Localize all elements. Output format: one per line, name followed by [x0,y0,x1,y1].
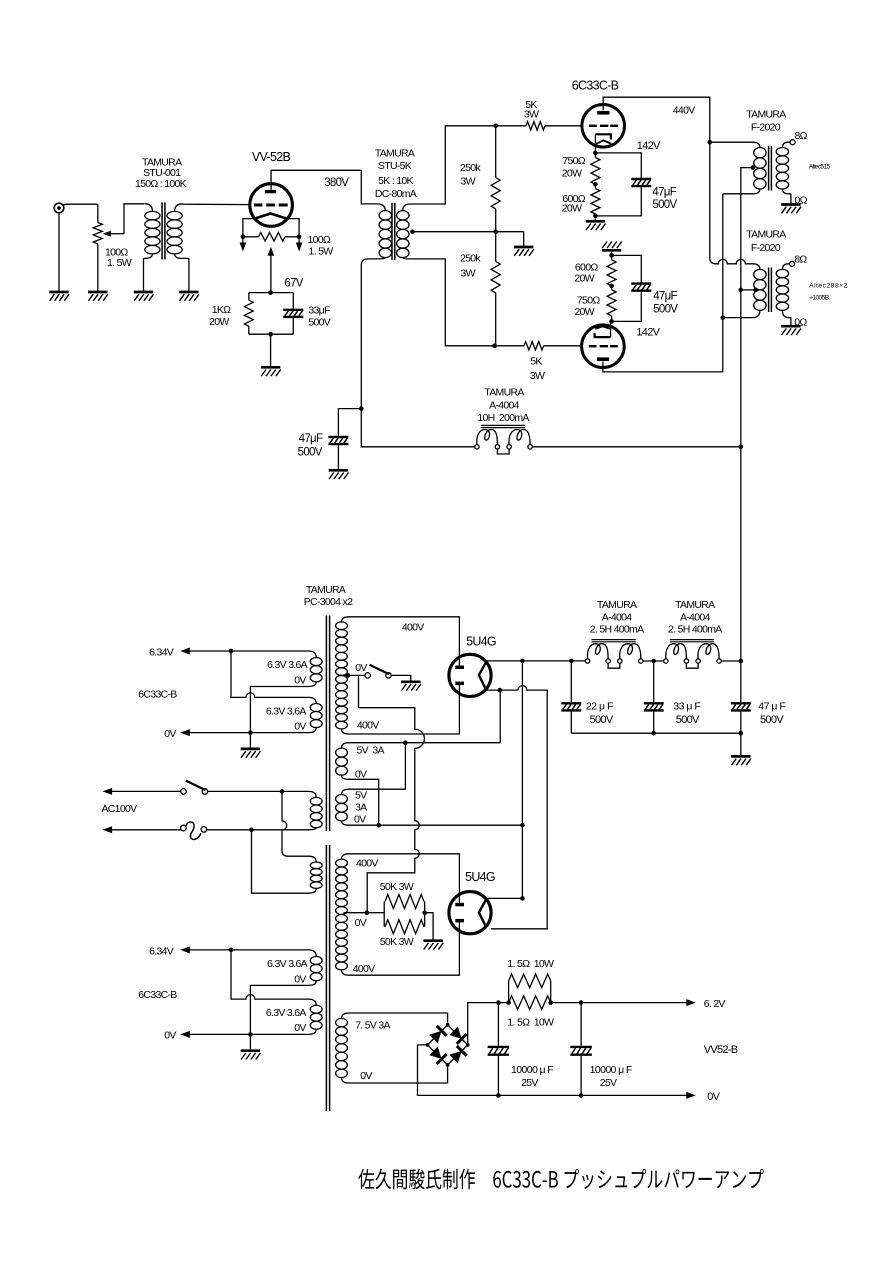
svg-text:750Ω: 750Ω [562,155,585,167]
wire AC hot to switch [112,790,181,792]
label 5K 3W upper [524,99,539,121]
capacitor 47uF 500V filter left [328,409,361,471]
wire bias bottom rail [249,333,293,335]
node T3 center tap [751,165,756,170]
svg-text:7. 5V 3A: 7. 5V 3A [355,1019,390,1031]
wire 0V bus to B+ sense [349,824,522,826]
svg-text:1. 5Ω 10W: 1. 5Ω 10W [507,1016,554,1028]
svg-text:500V: 500V [760,714,784,726]
svg-text:STU-001: STU-001 [143,167,181,179]
wire 5V1 bottom to 0V bus [349,779,379,825]
winding 6.3V 3.6A lower block 2 [309,999,323,1034]
svg-text:6.34V: 6.34V [149,946,174,958]
resistor 1Kohm 20W [244,293,253,335]
label 47uF 500V lower [653,291,678,316]
svg-text:0V: 0V [294,1022,306,1034]
wire fuse to primaries [207,829,309,831]
resistor 750ohm 20W lower [607,286,616,322]
wire STU-5K secondary top to grid1 [414,126,496,204]
bridge rectifier D1-D4 [426,1023,470,1067]
svg-text:0V: 0V [164,1030,176,1042]
svg-text:TAMURA: TAMURA [675,599,715,611]
ground HT switch [401,682,421,691]
node cathode network top lower [609,253,614,258]
node V3 filament bottom [498,688,503,693]
node B+ rail [739,659,744,664]
label 600ohm 20W lower [574,262,598,285]
node 6.34V riser block 1 [229,649,234,654]
capacitor 47uF 500V psu [731,661,751,733]
label 100ohm 1.5W pot [105,246,132,268]
arrow AC neutral [103,826,113,833]
svg-text:VV-52B: VV-52B [252,150,291,164]
wire STU-5K center tap [413,231,524,233]
node T4 center tap coil [754,288,759,293]
wire B+ down to PSU [740,447,742,661]
node grid1 junction [493,124,498,129]
svg-text:67V: 67V [284,278,303,290]
node 1.5ohm left [506,1000,511,1005]
node HV2 tap riser [365,910,370,915]
wire 7.5V bottom to bridge [349,1067,448,1083]
ground center tap [514,247,534,256]
node bias bottom [268,332,273,337]
svg-text:6.3V 3.6A: 6.3V 3.6A [266,1007,307,1019]
svg-text:100Ω: 100Ω [308,234,331,246]
svg-text:3W: 3W [524,109,539,121]
svg-text:0V: 0V [355,917,367,929]
svg-text:0V: 0V [355,768,367,780]
svg-text:1. 5Ω 10W: 1. 5Ω 10W [507,958,554,970]
transformer T2 STU-5K [361,170,413,265]
node between 600 and 750 lower [609,284,614,289]
svg-text:750Ω: 750Ω [577,295,600,307]
wire HV taps interconnect (down to HV2) [359,675,425,912]
wire 0V rail block 2 [189,1033,308,1035]
wire neutral drop to primary B [252,830,309,893]
wire STU-001 primary bottom to ground [143,258,145,292]
svg-text:380V: 380V [324,177,349,189]
svg-text:Altec288×2: Altec288×2 [809,283,848,290]
svg-text:25V: 25V [521,1077,538,1089]
node center tap coil [410,229,415,234]
node T4 center tap riser [739,288,744,293]
svg-text:500V: 500V [308,317,330,329]
node 440V rail at T3 primary top [708,140,713,145]
label 1Kohm 20W [209,304,231,328]
svg-text:TAMURA: TAMURA [746,229,786,241]
svg-text:22 μ F: 22 μ F [586,701,613,713]
resistor 600ohm 20W lower [607,255,616,286]
node rail/22uF [569,659,574,664]
wire 0V to ground block 1 [249,733,251,749]
label 5K 3W lower [530,356,545,382]
svg-text:STU-5K: STU-5K [378,160,412,172]
node 5V1 top junction [403,740,408,745]
node T4 primary bottom [721,315,726,320]
capacitor 33uF 500V [283,293,303,335]
label TAMURA F-2020 upper [746,108,786,133]
svg-text:TAMURA: TAMURA [597,599,637,611]
label TAMURA A-4004 2.5H no.1 [590,599,644,636]
svg-text:6C33C-B: 6C33C-B [138,989,177,1001]
terminal 8ohm lower [790,261,795,266]
triode V1 6C33C-B upper [582,105,625,148]
arrow 0V out bottom [686,1092,696,1099]
wire T4 center tap [741,289,756,291]
svg-text:0V: 0V [294,720,306,732]
input jack J1 [54,203,98,213]
wire upper 0V lead block 2 [250,985,308,1034]
transformer T4 F-2020 lower [723,264,791,318]
wire V2 plate to transformers [603,318,723,372]
node cap1 bottom [496,1093,501,1098]
triode V2 6C33C-B lower [582,325,625,368]
svg-text:0V: 0V [707,1091,720,1103]
rectifier V4 5U4G [449,892,491,934]
svg-text:TAMURA: TAMURA [484,387,524,399]
svg-text:142V: 142V [636,327,660,339]
wire psu ground bus [571,732,741,734]
svg-text:6C33C-B: 6C33C-B [572,79,619,93]
ground upper cathode [586,221,606,230]
svg-text:5U4G: 5U4G [465,870,495,884]
node filament left [241,235,246,240]
choke L2 A-4004 2.5H [585,640,643,669]
arrow 6.34V out block 2 [180,946,190,953]
svg-text:250k: 250k [460,162,481,174]
svg-text:150Ω : 100K: 150Ω : 100K [135,178,187,190]
svg-text:1. 5W: 1. 5W [107,257,132,269]
label 100ohm 1.5W hum [308,234,334,257]
arrow 0V out block 1 [180,729,190,736]
label 33uF 500V psu [673,701,700,726]
winding 5V 3A no.2 [336,789,349,825]
label TAMURA PC-3004 x2 [304,584,353,608]
svg-text:500V: 500V [676,714,700,726]
arrow 6.2V out [686,999,696,1006]
arrow AC hot [103,788,113,795]
wire HV1 bottom to V3 plate lower [349,685,459,734]
winding 7.5V 3A [336,1013,349,1083]
label 750ohm 20W upper [562,155,586,180]
rectifier V3 5U4G [449,654,491,696]
label 10000uF 25V no.2 [590,1064,632,1089]
wire B+ riser down to choke [740,290,742,447]
wire V2 cathode lead [610,321,612,337]
svg-text:400V: 400V [357,720,379,732]
wire upper 0V lead block 1 [250,687,308,733]
wire V4 filament top [487,897,523,899]
wire HV1 top to V3 plate [349,617,459,666]
svg-text:500V: 500V [653,304,678,316]
wire 5V1 top to V3 filament (hop) [349,690,500,743]
svg-text:400V: 400V [353,963,375,975]
svg-text:0V: 0V [354,813,366,825]
svg-text:6.3V 3.6A: 6.3V 3.6A [267,659,308,671]
label TAMURA STU-5K [375,147,417,200]
ground T4 secondary [781,326,801,335]
resistor 5K 3W upper [496,122,582,130]
node V2 cathode 142V [609,319,614,324]
winding 5V 3A no.1 [336,743,349,780]
svg-text:20W: 20W [574,273,594,285]
svg-text:0V: 0V [355,662,367,674]
svg-text:3W: 3W [461,267,476,279]
svg-text:142V: 142V [637,140,661,152]
wire hot drop to primary B (hop) [282,791,309,856]
wire 6.2V rail [551,1002,687,1004]
svg-text:6.3V 3.6A: 6.3V 3.6A [266,705,307,717]
node 47uF tap [359,406,364,411]
wire 7.5V top to bridge [349,1013,448,1023]
choke L3 A-4004 2.5H [664,640,722,669]
wire riser to lower winding (hop) block 1 [231,651,309,697]
svg-text:AC100V: AC100V [102,803,138,815]
node rail/0V riser [520,659,525,664]
svg-text:47μF: 47μF [653,291,677,303]
arrow 6.34V out block 1 [180,648,190,655]
svg-text:1. 5W: 1. 5W [309,245,334,257]
hum resistor 100ohm 1.5W [259,233,286,242]
resistor 250k 3W upper [491,126,500,232]
winding HV1 400-0-400 [336,617,349,734]
node cap2 bottom [579,1093,584,1098]
arrow filament right to 6.2V [296,243,303,252]
svg-text:PC-3004 x2: PC-3004 x2 [304,596,353,608]
svg-text:3W: 3W [461,175,476,187]
svg-text:47μF: 47μF [652,187,676,199]
label TAMURA F-2020 lower [746,229,786,254]
node cathode network bottom upper [593,214,598,219]
transformer T6 PC-3004 core lower [325,845,327,1111]
triode VV-52B [250,184,293,227]
svg-text:440V: 440V [673,105,695,117]
wire V3 filament top to B+ rail [487,660,588,662]
svg-text:Altec515: Altec515 [809,164,831,171]
svg-text:50K 3W: 50K 3W [380,881,414,893]
capacitor 10000uF 25V no.1 [488,1003,510,1096]
svg-text:0V: 0V [294,974,306,986]
node V1 cathode 142V [593,151,598,156]
node 0V bus / B+ riser [520,823,525,828]
wire V4 plate upper to HV2 [349,854,459,903]
ground bleed [423,941,443,950]
node 0V ground block 1 [248,730,253,735]
label 600ohm 20W upper [562,193,586,214]
ground heater block 2 [241,1051,261,1060]
arrow cathode tap up [268,247,275,256]
svg-text:20W: 20W [574,306,594,318]
capacitor 47uF 500V lower bypass [612,255,652,321]
wire switch to ground [391,675,411,681]
capacitor 47uF 500V upper bypass [595,153,651,216]
label 47uF 500V left [298,433,323,459]
wire to ground upper cathode [594,216,596,221]
node HV1 tap [346,673,351,678]
svg-text:400V: 400V [356,857,378,869]
node bus 47uF [739,731,744,736]
wire jack to ground [58,213,60,292]
svg-text:25V: 25V [600,1077,617,1089]
label TAMURA STU-001 150:100K [135,156,187,190]
svg-text:500V: 500V [590,714,614,726]
node 0V ground block 2 [248,1032,253,1037]
wire 440V rail to T4 primary top (with hops) [710,258,760,269]
wire STU-5K bottom to choke [361,409,474,447]
node primary junction hot [280,789,285,794]
wire STU-5K secondary bottom to grid2 [414,259,495,346]
svg-text:VV52-B: VV52-B [704,1044,738,1056]
node 0V riser / V4 filament [520,896,525,901]
label TAMURA A-4004 10H 200mA [477,387,529,424]
node 33uF rail [651,659,656,664]
ground STU-001 primary [134,292,154,301]
wire bias top rail [249,292,293,294]
svg-text:F-2020: F-2020 [751,242,781,254]
node choke output / B+ [739,445,744,450]
transformer T3 F-2020 upper [710,142,791,194]
svg-text:400V: 400V [402,622,424,634]
wire VV-52B plate to 380V [271,170,361,190]
svg-text:TAMURA: TAMURA [746,108,786,120]
winding 6.3V 3.6A upper block 2 [309,950,323,986]
svg-text:A-4004: A-4004 [680,611,711,623]
svg-text:0V: 0V [294,675,306,687]
svg-text:20W: 20W [562,168,582,180]
label 10000uF 25V no.1 [511,1064,553,1089]
node bus 33uF [651,731,656,736]
label 750ohm 20W lower [574,295,600,319]
switch S2 HT [365,665,391,678]
capacitor 22uF 500V [561,661,581,733]
svg-text:0V: 0V [360,1070,372,1082]
transformer T5 PC-3004 core upper [325,616,327,832]
svg-text:20W: 20W [562,202,582,214]
terminal 8ohm upper [790,140,795,145]
capacitor 10000uF 25V no.2 [570,1003,592,1096]
fuse F1 [181,822,207,840]
wire choke to B+ riser [533,446,741,448]
wire V3 filament bottom (hop over riser) [487,686,548,929]
svg-text:20W: 20W [209,316,229,328]
capacitor 33uF 500V psu [644,661,664,733]
wire STU-001 secondary to VV-52B grid [183,203,250,206]
wire STU-5K primary bottom down [360,266,362,409]
node 67V top [268,290,273,295]
wire bus to ground [740,733,742,756]
svg-text:10000 μ F: 10000 μ F [590,1064,632,1076]
choke L1 A-4004 10H 200mA [475,425,533,454]
wire V1 plate to 440V rail [603,97,710,258]
svg-text:10H 200mA: 10H 200mA [477,412,529,424]
wire 5V2 top riser [349,743,405,790]
wire V4 plate lower to HV2 bottom [349,922,459,975]
label 250k 3W upper [460,162,481,187]
switch S1 mains [181,781,208,795]
svg-text:6.3V 3.6A: 6.3V 3.6A [267,958,308,970]
node bleed output [422,910,427,915]
svg-text:5U4G: 5U4G [466,634,496,648]
resistor 50K 3W upper bleed [384,895,424,927]
node primary junction neutral [249,828,254,833]
svg-text:500V: 500V [298,447,323,459]
wire switch to primaries [208,790,309,792]
node cap2 top [579,1000,584,1005]
wire bridge minus to 0V rail [418,1045,687,1096]
winding 6.3V 3.6A lower block 1 [309,697,323,732]
arrow 0V out block 2 [180,1031,190,1038]
resistor 250k 3W lower [491,232,500,346]
transformer T1 TAMURA STU-001 [144,202,189,259]
node cap1 top [496,1000,501,1005]
node between 750 and 600 upper [593,182,598,187]
svg-text:47 μ F: 47 μ F [758,701,785,713]
node filament right [297,235,302,240]
wire B+ rail chokes [643,660,741,662]
label 47uF 500V upper [652,187,677,211]
wire 6.34V rail block 1 [189,650,308,652]
svg-text:500V: 500V [652,199,677,211]
resistor 750ohm 20W upper [591,153,600,184]
svg-text:2. 5H 400mA: 2. 5H 400mA [668,624,722,636]
wire 0ohm lower to ground [790,318,792,326]
wire T4 primary bottom to T3 primary bottom [722,194,724,318]
label 47uF 500V psu [758,701,785,726]
winding primary B [309,856,323,893]
ground under pot [88,292,108,301]
ground 47uF left [329,470,349,479]
svg-text:250k: 250k [460,253,481,265]
wire AC neutral to fuse [112,829,181,831]
svg-text:33 μ F: 33 μ F [673,701,700,713]
svg-text:2. 5H 400mA: 2. 5H 400mA [590,624,644,636]
wire center tap to ground [523,232,525,247]
svg-text:+1005B: +1005B [809,295,830,302]
resistor 5K 3W lower [495,342,582,350]
wire STU-001 secondary bottom to ground [188,258,190,292]
svg-text:3W: 3W [530,370,545,382]
label TAMURA A-4004 2.5H no.2 [668,599,722,636]
node 0V bus / 5V1 [376,823,381,828]
svg-text:6.34V: 6.34V [149,647,174,659]
wire cathode tap to bias node 67V [270,256,272,293]
svg-text:1KΩ: 1KΩ [212,304,231,316]
svg-text:50K 3W: 50K 3W [380,936,414,948]
resistor 1.5ohm 10W lower (inline) [509,996,551,1010]
winding HV2 400-0-400 [336,854,349,975]
svg-text:5K : 10K: 5K : 10K [378,175,413,187]
ground lower cathode (inverted) [602,242,622,251]
arrow filament left to 6.2V [240,243,247,252]
ground STU-001 secondary [179,292,199,301]
winding primary A [309,791,323,829]
wire 0ohm upper to ground [790,194,792,205]
wire riser to lower winding (hop) block 2 [231,950,309,999]
wire 0V rail block 1 [189,732,308,734]
wire bridge plus to 6.2V rail [468,1003,509,1045]
ground bias network [261,367,281,376]
svg-text:6C33C-B: 6C33C-B [138,689,177,701]
wire HV1 center tap [344,674,366,676]
svg-text:10000 μ F: 10000 μ F [511,1064,553,1076]
svg-text:5K: 5K [530,356,542,368]
label 22uF 500V [586,701,614,726]
ground under jack [49,292,69,301]
wire T3 center tap to B+ riser [741,168,753,290]
label 33uF 500V [308,305,330,329]
node 1.5ohm right [548,1000,553,1005]
